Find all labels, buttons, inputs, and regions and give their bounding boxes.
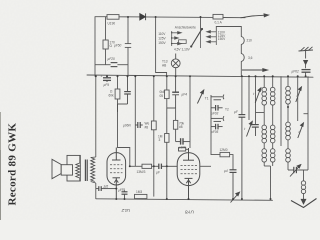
- jack contacts upper: [211, 95, 224, 130]
- transformer core: [84, 160, 86, 182]
- svg-text:110V: 110V: [158, 32, 166, 36]
- left contact rail: [171, 31, 173, 46]
- svg-text:3: 3: [159, 138, 161, 142]
- capacitor at 12M0: [230, 170, 237, 199]
- adjuster arrow right row2: [298, 123, 304, 138]
- main bus wire: [87, 75, 313, 77]
- svg-text:µ4: µ4: [224, 169, 228, 173]
- capacitor µ10F coupling: [176, 138, 190, 144]
- coil right row3: [286, 149, 291, 170]
- anode: [183, 159, 194, 161]
- wire left drop from top rail: [94, 17, 96, 76]
- adjuster arrow IFT2 sec: [247, 121, 253, 136]
- cathode: [185, 177, 193, 179]
- coil ground small: [301, 170, 305, 203]
- cathode lead: [188, 178, 190, 199]
- lamp dial: [171, 54, 180, 77]
- svg-text:µF03: µF03: [211, 111, 219, 115]
- trimmer arrow at bottom rail: [231, 192, 240, 202]
- capacitor µF20: [95, 63, 128, 67]
- svg-text:T1: T1: [205, 97, 209, 101]
- resistor We8: [151, 121, 156, 130]
- switch wiper bar: [191, 29, 202, 47]
- heater: [114, 180, 118, 183]
- resistor 12M0: [200, 130, 233, 170]
- winding leads: [79, 155, 81, 163]
- svg-text:125V: 125V: [158, 37, 166, 41]
- capacitor AVC: [239, 115, 246, 199]
- wire drop x128: [127, 17, 129, 44]
- coil row3 left a: [262, 149, 271, 166]
- wire jumper IFT1: [256, 112, 265, 114]
- tube UCL output: [107, 148, 126, 200]
- output transformer: [76, 76, 96, 199]
- svg-text:12M0: 12M0: [220, 148, 228, 152]
- grid 1: [181, 164, 198, 166]
- capacitor µF55: [122, 191, 128, 200]
- diode D1: [140, 13, 146, 20]
- grid 3: [181, 173, 198, 175]
- switch arm mains: [241, 14, 269, 18]
- resistor 60k: [115, 89, 120, 99]
- svg-text:µ06N: µ06N: [123, 124, 131, 128]
- capacitor µF50: [125, 44, 131, 48]
- trimmer cap oscillator: [288, 167, 308, 173]
- scan edge artifact: [0, 112, 1, 220]
- wire drop x135: [134, 76, 136, 166]
- bottom rail wire: [96, 199, 273, 201]
- wire drop x255.5: [255, 76, 257, 124]
- svg-text:210: 210: [247, 39, 253, 43]
- anode top lead: [188, 148, 190, 153]
- coil right row2: [286, 122, 291, 149]
- svg-text:µF50: µF50: [114, 43, 122, 47]
- heater: [186, 180, 190, 183]
- resistor cathode bias: [165, 134, 169, 143]
- svg-text:Anschlußwerte: Anschlußwerte: [175, 25, 196, 29]
- coil row2 left b: [270, 125, 275, 149]
- svg-text:1M3: 1M3: [136, 190, 142, 194]
- grid 2: [181, 169, 198, 171]
- resistor 1M3: [135, 194, 147, 198]
- capacitor µF5: [96, 186, 117, 191]
- right contact rail: [215, 30, 217, 45]
- contact arrows right: [207, 31, 217, 43]
- cathode lead: [115, 178, 117, 199]
- top rail wire: [95, 16, 107, 18]
- svg-text:µF4: µF4: [182, 92, 188, 96]
- wire drop x190 to tube2: [189, 76, 191, 148]
- coil IFT2 right col: [286, 76, 291, 122]
- svg-text:13M/3: 13M/3: [137, 170, 146, 174]
- capacitor µF05: [211, 124, 223, 130]
- wire drop x281: [280, 76, 282, 146]
- svg-text:µF02: µF02: [292, 70, 300, 74]
- tap box 4,5V: [179, 40, 187, 44]
- svg-text:µF05: µF05: [211, 130, 219, 134]
- svg-text:60k: 60k: [109, 93, 115, 97]
- svg-text:4,5V 1,10V: 4,5V 1,10V: [174, 48, 191, 52]
- svg-text:3,6: 3,6: [248, 56, 253, 60]
- loudspeaker: [52, 159, 73, 178]
- resistor 210 (filament bump): [241, 37, 244, 45]
- svg-text:0,1 A: 0,1 A: [215, 21, 223, 25]
- resistor We8b on lamp cap line: [173, 108, 177, 142]
- grid row: resistor 13M/3: [130, 164, 159, 168]
- resistor 0k6 lamp shunt: [165, 76, 170, 108]
- voltage selector block: [171, 28, 216, 48]
- svg-text:T2: T2: [225, 107, 229, 111]
- cathode: [113, 177, 121, 179]
- svg-text:Jµ5: Jµ5: [103, 184, 108, 188]
- anode: [112, 159, 121, 161]
- coil IFT1 primary: [262, 76, 267, 125]
- adjuster arrow right row1: [296, 87, 302, 102]
- ground chassis: [291, 199, 317, 208]
- svg-text:+: +: [101, 74, 103, 78]
- coil IFT1 row2: [262, 125, 267, 149]
- anode lead: [115, 148, 117, 153]
- jack contacts lower: [211, 116, 224, 121]
- svg-text:150V: 150V: [158, 41, 166, 45]
- switch T1: [197, 90, 203, 104]
- antenna: [299, 47, 314, 59]
- adjuster arrow IFT1 pri: [252, 88, 261, 103]
- coil row3 left b: [270, 149, 275, 199]
- heater feed arrow: [242, 69, 268, 72]
- grid 3: [110, 172, 123, 174]
- svg-text:05: 05: [160, 94, 164, 98]
- wire drop from diode node: [156, 17, 167, 76]
- capacitor µF06: [135, 122, 143, 128]
- secondary winding: [91, 158, 95, 182]
- capacitor grid coupling: [159, 164, 177, 169]
- capacitor µF03: [211, 105, 223, 111]
- svg-text:µF9: µF9: [104, 83, 110, 87]
- capacitor µF02 antenna: [302, 70, 311, 77]
- wire drop x249: [248, 76, 250, 120]
- resistor U190: [107, 15, 119, 20]
- tube UY rect/detector: [177, 148, 200, 199]
- primary winding: [76, 163, 80, 178]
- contact arrows left: [172, 32, 182, 45]
- wire bus x308: [304, 76, 309, 170]
- svg-text:µF20: µF20: [108, 57, 116, 61]
- wire drop x297.7: [297, 76, 299, 121]
- resistor 3,6 (filament bump): [241, 54, 244, 62]
- svg-text:#8: #8: [145, 125, 149, 129]
- anode top capacitor box: [179, 148, 189, 151]
- fuse Si: [213, 14, 223, 19]
- capacitor IFT2: [252, 125, 259, 136]
- wire anode feed tube1: [118, 112, 130, 166]
- coil IFT1 secondary: [270, 76, 275, 125]
- capacitor at screen: [118, 76, 131, 112]
- antenna arrow: [304, 60, 308, 68]
- wire loop speaker: [67, 155, 80, 181]
- grid 2: [110, 168, 123, 170]
- svg-text:UY8: UY8: [185, 210, 194, 215]
- svg-text:Record 89 GWK: Record 89 GWK: [7, 123, 19, 206]
- svg-text:#8: #8: [179, 125, 183, 129]
- capacitor µF9 electrolytic: [103, 76, 111, 82]
- wire selector feed: [200, 17, 202, 29]
- resistor 170 (left dropper): [103, 17, 108, 65]
- svg-text:AB: AB: [162, 64, 166, 68]
- node AVC drop: [241, 76, 243, 114]
- capacitor µF4 electrolytic: [167, 76, 179, 199]
- wire mains right leg: [216, 27, 241, 37]
- svg-text:150V: 150V: [218, 37, 226, 41]
- grid 1: [110, 164, 123, 166]
- selector feed lower: [200, 29, 202, 48]
- svg-text:UL2: UL2: [121, 208, 130, 213]
- wire drop x154 with resistor: [151, 76, 156, 196]
- trimmer arrow: [290, 165, 301, 177]
- svg-text:U190: U190: [108, 22, 116, 26]
- wire screen divider x117.5: [115, 76, 120, 112]
